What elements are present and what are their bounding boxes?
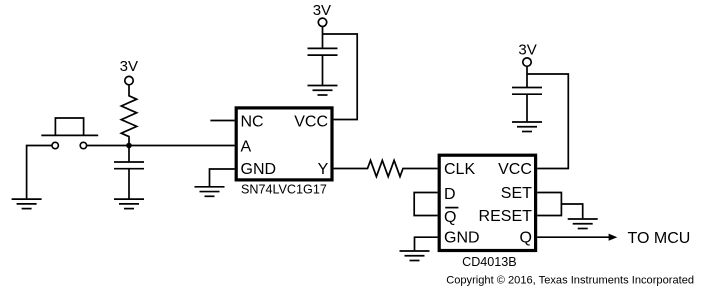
svg-text:Y: Y bbox=[318, 161, 329, 178]
svg-text:GND: GND bbox=[444, 230, 480, 247]
svg-text:SET: SET bbox=[501, 185, 532, 202]
svg-text:GND: GND bbox=[241, 161, 277, 178]
svg-text:TO MCU: TO MCU bbox=[628, 230, 691, 247]
svg-text:SN74LVC1G17: SN74LVC1G17 bbox=[241, 183, 327, 197]
svg-text:A: A bbox=[241, 138, 252, 155]
svg-text:CD4013B: CD4013B bbox=[462, 255, 517, 269]
svg-text:D: D bbox=[444, 186, 456, 203]
svg-text:3V: 3V bbox=[313, 2, 331, 19]
svg-text:CLK: CLK bbox=[444, 161, 475, 178]
svg-text:3V: 3V bbox=[518, 42, 536, 59]
svg-text:3V: 3V bbox=[120, 58, 138, 75]
svg-text:Q: Q bbox=[519, 230, 531, 247]
svg-text:NC: NC bbox=[241, 113, 264, 130]
svg-text:VCC: VCC bbox=[294, 113, 328, 130]
svg-text:Copyright © 2016, Texas Instru: Copyright © 2016, Texas Instruments Inco… bbox=[446, 275, 694, 287]
svg-text:VCC: VCC bbox=[498, 161, 532, 178]
svg-text:RESET: RESET bbox=[479, 208, 533, 225]
svg-text:Q: Q bbox=[444, 209, 456, 226]
